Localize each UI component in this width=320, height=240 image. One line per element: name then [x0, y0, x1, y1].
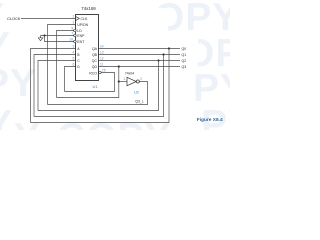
- svg-text:15: 15: [102, 69, 106, 73]
- svg-text:QB: QB: [92, 53, 98, 57]
- svg-text:LD: LD: [77, 29, 82, 33]
- svg-text:9: 9: [71, 27, 73, 31]
- svg-text:Figure X8.4: Figure X8.4: [197, 117, 223, 123]
- wire Q3 tap to inverter and LD loop: [57, 67, 119, 98]
- svg-text:Q0: Q0: [182, 47, 187, 51]
- svg-text:4: 4: [73, 51, 75, 55]
- svg-text:6: 6: [73, 63, 75, 67]
- node Q3 tap: [118, 65, 120, 67]
- svg-text:14: 14: [100, 45, 104, 49]
- wire QA to Q0: [99, 48, 181, 50]
- svg-text:Q1: Q1: [182, 53, 187, 57]
- wire UP/DN input: [48, 25, 77, 105]
- wire QC to Q2: [99, 60, 181, 62]
- wire Q2 feedback to C: [38, 61, 159, 111]
- svg-text:Q3: Q3: [182, 65, 187, 69]
- wire A input: [31, 49, 77, 123]
- wire Q1 feedback to B: [34, 55, 164, 117]
- svg-text:CLK: CLK: [81, 17, 88, 21]
- svg-text:74x169: 74x169: [81, 6, 96, 11]
- svg-text:U1: U1: [93, 84, 98, 89]
- wire B input: [34, 55, 76, 117]
- svg-text:ENP: ENP: [77, 34, 85, 38]
- svg-text:74x04: 74x04: [125, 72, 134, 76]
- svg-text:2: 2: [140, 77, 142, 81]
- svg-text:ENT: ENT: [77, 40, 85, 44]
- svg-text:3: 3: [73, 45, 75, 49]
- svg-text:13: 13: [100, 51, 104, 55]
- wire inverter input: [119, 81, 127, 83]
- node ground-ENP junction: [43, 34, 45, 36]
- node inverter input junction: [118, 80, 120, 82]
- wire Q3_L feedback to UP/DN: [48, 82, 148, 105]
- node Q1 tap: [162, 53, 164, 55]
- wire Q0 feedback to A: [31, 49, 170, 123]
- svg-text:QC: QC: [92, 59, 98, 63]
- counter U1 74x169: [70, 6, 106, 89]
- node Q0 tap: [168, 47, 170, 49]
- svg-text:U2: U2: [134, 89, 139, 94]
- svg-text:1: 1: [73, 21, 75, 25]
- pin RCO bubble: [99, 71, 102, 74]
- pin numbers U1: [70, 15, 106, 73]
- wire ground stub to ENT: [45, 36, 74, 42]
- svg-text:Q2: Q2: [182, 59, 187, 63]
- node junction dots: [43, 34, 170, 82]
- wire RCO feedback to D: [65, 73, 115, 92]
- svg-text:11: 11: [100, 63, 104, 67]
- watermark COPY fragments: [154, 0, 239, 37]
- svg-text:CLOCK: CLOCK: [7, 16, 21, 21]
- pin LD bubble: [74, 29, 77, 32]
- svg-text:QA: QA: [92, 47, 98, 51]
- wire D input: [65, 67, 77, 92]
- wire QB to Q1: [99, 54, 181, 56]
- svg-text:12: 12: [100, 57, 104, 61]
- svg-text:7: 7: [71, 32, 73, 36]
- inverter U2 74x04: [124, 72, 143, 95]
- svg-text:10: 10: [70, 38, 74, 42]
- ground: [38, 36, 43, 41]
- pin CLK wedge: [76, 17, 79, 21]
- pin ENT bubble: [74, 40, 77, 43]
- wire CLOCK to CLK: [21, 18, 76, 20]
- svg-text:Q3_L: Q3_L: [135, 100, 144, 104]
- svg-text:2: 2: [73, 15, 75, 19]
- svg-text:UP/DN: UP/DN: [77, 23, 88, 27]
- svg-text:QD: QD: [92, 65, 98, 69]
- wire QD to Q3: [99, 66, 181, 68]
- svg-text:1: 1: [124, 77, 126, 81]
- wire C input: [38, 61, 76, 111]
- svg-text:RCO: RCO: [89, 71, 97, 75]
- svg-text:5: 5: [73, 57, 75, 61]
- wire LD input: [57, 31, 74, 98]
- pin ENP bubble: [74, 34, 77, 37]
- node Q2 tap: [157, 59, 159, 61]
- wire ground to ENP: [41, 35, 74, 37]
